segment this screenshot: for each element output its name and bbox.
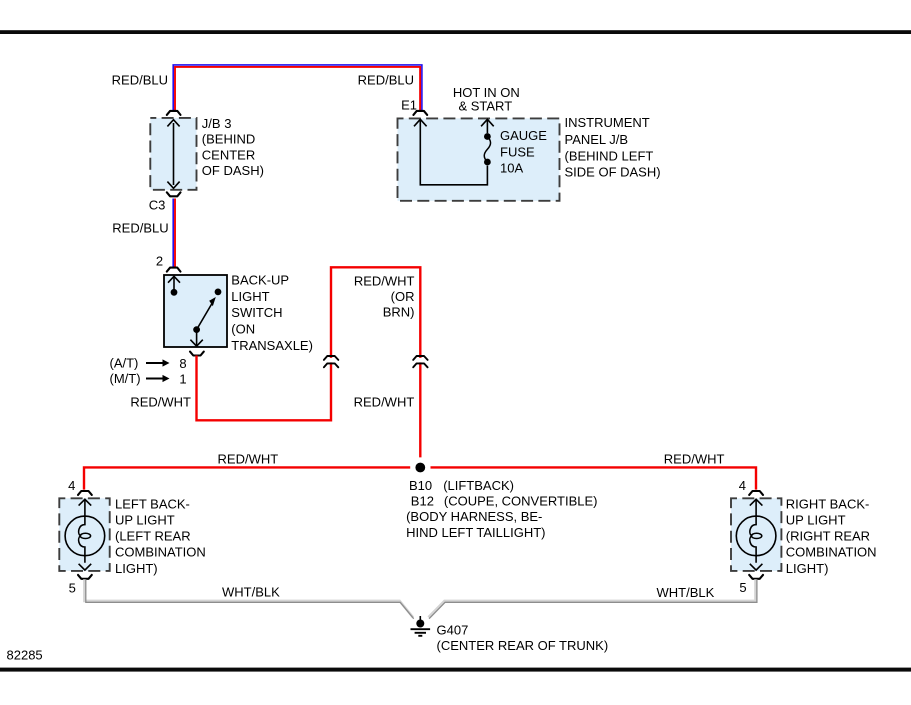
label GAUGE FUSE 10A bbox=[500, 128, 547, 176]
svg-text:RED/WHT: RED/WHT bbox=[354, 274, 415, 289]
svg-text:OF DASH): OF DASH) bbox=[202, 163, 264, 178]
label G407 (CENTER REAR OF TRUNK) bbox=[437, 622, 609, 653]
svg-text:BACK-UP: BACK-UP bbox=[231, 273, 289, 288]
svg-text:(ON: (ON bbox=[231, 322, 255, 337]
junction block J/B 3 bbox=[150, 118, 196, 190]
svg-text:(A/T): (A/T) bbox=[110, 356, 139, 371]
label WHT/BLK (left) bbox=[222, 585, 280, 600]
connector cap at J/B3 top bbox=[167, 111, 181, 115]
connector cup at left lamp bottom bbox=[78, 575, 92, 579]
svg-text:INSTRUMENT: INSTRUMENT bbox=[565, 115, 650, 130]
wire RED/WHT bus right segment bbox=[431, 467, 757, 489]
label LEFT BACK-UP LIGHT bbox=[115, 496, 206, 575]
right back-up light bbox=[731, 498, 781, 571]
svg-text:HIND LEFT TAILLIGHT): HIND LEFT TAILLIGHT) bbox=[406, 525, 545, 540]
label RED/WHT (below switch) bbox=[130, 394, 191, 409]
connector cap at switch pin 2 bbox=[167, 268, 181, 272]
connector cup below switch bbox=[190, 352, 204, 356]
wire RED/WHT: switch to branch, up and over bbox=[197, 356, 332, 421]
svg-text:(LEFT REAR: (LEFT REAR bbox=[115, 529, 191, 544]
svg-text:PANEL J/B: PANEL J/B bbox=[565, 132, 629, 147]
wire RED/WHT (OR BRN): over top branch bbox=[331, 267, 420, 358]
svg-text:& START: & START bbox=[458, 99, 512, 114]
label HOT IN ON & START bbox=[453, 85, 520, 114]
svg-text:WHT/BLK: WHT/BLK bbox=[657, 585, 715, 600]
svg-text:RED/WHT: RED/WHT bbox=[664, 451, 725, 466]
label RED/WHT (right of switch branch) bbox=[354, 394, 415, 409]
svg-text:RED/BLU: RED/BLU bbox=[112, 221, 168, 236]
svg-text:5: 5 bbox=[739, 580, 746, 595]
svg-text:2: 2 bbox=[156, 254, 163, 269]
svg-text:UP LIGHT: UP LIGHT bbox=[115, 513, 175, 528]
connector cap at left lamp top bbox=[78, 491, 92, 495]
wire RED/BLU red stripe: C3 to switch pin 2 bbox=[174, 199, 176, 269]
label RED/WHT (bus left) bbox=[218, 452, 279, 467]
svg-text:E1: E1 bbox=[401, 97, 417, 112]
svg-text:WHT/BLK: WHT/BLK bbox=[222, 585, 280, 600]
svg-text:(BEHIND LEFT: (BEHIND LEFT bbox=[565, 148, 654, 163]
svg-text:FUSE: FUSE bbox=[500, 144, 535, 159]
bottom border bar bbox=[0, 668, 911, 672]
connector cup at right lamp bottom bbox=[749, 575, 763, 579]
label RED/BLU (middle) bbox=[112, 221, 168, 236]
svg-text:B10: B10 bbox=[409, 478, 432, 493]
top border bar bbox=[0, 30, 911, 34]
in-line connector on left branch bbox=[324, 356, 338, 367]
connector cap at right lamp top bbox=[749, 491, 763, 495]
wire RED/BLU red stripe: J/B3 top, up, across, down to E1 bbox=[175, 67, 420, 112]
svg-text:(M/T): (M/T) bbox=[110, 371, 141, 386]
svg-text:UP LIGHT: UP LIGHT bbox=[786, 513, 846, 528]
wire WHT/BLK light stripe: ground to right lamp bbox=[428, 579, 755, 617]
svg-text:J/B 3: J/B 3 bbox=[202, 116, 232, 131]
wire RED/BLU blue stripe: C3 to switch pin 2 bbox=[172, 199, 174, 269]
pin label (A/T) 8 bbox=[110, 356, 187, 372]
svg-text:RED/WHT: RED/WHT bbox=[354, 394, 415, 409]
svg-text:RIGHT BACK-: RIGHT BACK- bbox=[786, 496, 870, 511]
svg-text:5: 5 bbox=[69, 581, 76, 596]
svg-text:8: 8 bbox=[179, 356, 186, 371]
instrument panel junction block bbox=[398, 118, 560, 200]
svg-text:COMBINATION: COMBINATION bbox=[786, 545, 877, 560]
svg-text:10A: 10A bbox=[500, 161, 523, 176]
svg-text:LEFT BACK-: LEFT BACK- bbox=[115, 496, 190, 511]
svg-text:LIGHT): LIGHT) bbox=[115, 561, 158, 576]
pin label 5 (right) bbox=[739, 580, 746, 595]
label B10 B12 connector text bbox=[406, 478, 597, 540]
svg-text:(COUPE, CONVERTIBLE): (COUPE, CONVERTIBLE) bbox=[444, 493, 598, 508]
wire RED/WHT: branch down to junction B10 bbox=[419, 362, 421, 457]
wire WHT/BLK dark stripe: ground to right lamp bbox=[429, 579, 757, 618]
junction dot B10/B12 bbox=[415, 463, 425, 473]
label WHT/BLK (right) bbox=[657, 585, 715, 600]
pin label C3 bbox=[149, 198, 166, 213]
svg-text:82285: 82285 bbox=[7, 648, 43, 663]
svg-text:(LIFTBACK): (LIFTBACK) bbox=[443, 478, 514, 493]
connector cap at E1 bbox=[413, 111, 427, 115]
svg-text:C3: C3 bbox=[149, 198, 166, 213]
svg-text:G407: G407 bbox=[437, 622, 469, 637]
label RED/WHT (bus right) bbox=[664, 451, 725, 466]
svg-text:COMBINATION: COMBINATION bbox=[115, 545, 206, 560]
label BACK-UP LIGHT SWITCH (ON TRANSAXLE) bbox=[231, 273, 313, 353]
svg-text:LIGHT): LIGHT) bbox=[786, 561, 829, 576]
svg-text:(BEHIND: (BEHIND bbox=[202, 132, 255, 147]
svg-text:SWITCH: SWITCH bbox=[231, 305, 282, 320]
label INSTRUMENT PANEL J/B bbox=[565, 115, 661, 180]
wire RED/WHT bus left segment bbox=[84, 467, 410, 489]
svg-text:4: 4 bbox=[68, 478, 75, 493]
label E1 bbox=[401, 97, 417, 112]
label J/B 3 (BEHIND CENTER OF DASH) bbox=[202, 116, 264, 178]
pin label 2 bbox=[156, 254, 163, 269]
pin label 5 (left) bbox=[69, 581, 76, 596]
svg-text:LIGHT: LIGHT bbox=[231, 289, 269, 304]
svg-text:4: 4 bbox=[739, 478, 746, 493]
pin label 4 (right) bbox=[739, 478, 746, 493]
svg-text:SIDE OF DASH): SIDE OF DASH) bbox=[565, 165, 661, 180]
connector cup at J/B3 bottom (C3) bbox=[167, 192, 181, 196]
svg-text:1: 1 bbox=[179, 372, 186, 387]
in-line connector on right branch bbox=[413, 356, 427, 367]
wire WHT/BLK light stripe: left lamp to ground bbox=[84, 579, 413, 617]
pin label (M/T) 1 bbox=[110, 371, 187, 387]
svg-text:(BODY HARNESS, BE-: (BODY HARNESS, BE- bbox=[406, 509, 542, 524]
svg-text:GAUGE: GAUGE bbox=[500, 128, 547, 143]
label 82285 diagram number bbox=[7, 648, 43, 663]
svg-text:RED/WHT: RED/WHT bbox=[218, 452, 279, 467]
label RED/WHT (OR BRN) bbox=[354, 274, 415, 320]
svg-text:(OR: (OR bbox=[391, 289, 415, 304]
svg-text:B12: B12 bbox=[411, 493, 434, 508]
wire WHT/BLK dark stripe: left lamp to ground bbox=[86, 579, 414, 618]
svg-text:RED/BLU: RED/BLU bbox=[358, 73, 414, 88]
label RED/BLU (top right) bbox=[358, 73, 414, 88]
wire RED/BLU blue stripe: J/B3 top, up, across, down to E1 bbox=[173, 65, 422, 112]
svg-text:BRN): BRN) bbox=[383, 304, 415, 319]
left back-up light bbox=[59, 498, 109, 571]
label RED/BLU (top left) bbox=[112, 73, 168, 88]
svg-text:RED/WHT: RED/WHT bbox=[130, 394, 191, 409]
svg-text:TRANSAXLE): TRANSAXLE) bbox=[231, 338, 313, 353]
svg-text:RED/BLU: RED/BLU bbox=[112, 73, 168, 88]
svg-text:(CENTER REAR OF TRUNK): (CENTER REAR OF TRUNK) bbox=[437, 638, 609, 653]
fuse GAUGE 10A bbox=[481, 119, 494, 165]
svg-text:(RIGHT REAR: (RIGHT REAR bbox=[786, 529, 870, 544]
pin label 4 (left) bbox=[68, 478, 75, 493]
svg-text:CENTER: CENTER bbox=[202, 147, 255, 162]
ground G407 bbox=[411, 616, 431, 636]
label RIGHT BACK-UP LIGHT bbox=[786, 496, 877, 575]
back-up light switch bbox=[164, 275, 227, 347]
